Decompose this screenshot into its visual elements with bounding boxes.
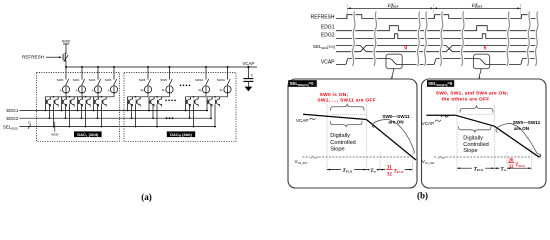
DACL label <box>74 131 102 137</box>
svg-text:5: 5 <box>484 46 487 52</box>
transistor Q1 (REFRESH pass device) <box>63 51 68 67</box>
svg-text:VCAP: VCAP <box>242 61 254 66</box>
svg-text:Tss: Tss <box>500 166 506 172</box>
timing: time-break squiggles <box>352 12 537 67</box>
left panel T_FCO dimension <box>327 166 366 174</box>
wire: output bus to VCAP <box>66 66 257 68</box>
svg-text:VCAP: VCAP <box>296 118 309 123</box>
svg-text:are ON: are ON <box>388 120 404 125</box>
left panel underbrace + Digitally Controlled Slope text <box>330 121 362 127</box>
svg-text:Slope: Slope <box>330 147 344 153</box>
svg-text:SW1: SW1 <box>73 78 80 82</box>
left panel T_ss dimension <box>366 166 380 174</box>
svg-text:DACL (2bit): DACL (2bit) <box>77 132 99 138</box>
svg-text:(b): (b) <box>417 190 428 200</box>
svg-text:32: 32 <box>509 165 515 170</box>
svg-text:SW4: SW4 <box>139 78 146 82</box>
DAC block DACM dashed boundary <box>124 72 236 141</box>
svg-text:TFCO: TFCO <box>515 162 525 168</box>
svg-text:Tss: Tss <box>370 168 376 174</box>
svg-text:AVDD: AVDD <box>62 40 71 44</box>
svg-text:C: C <box>251 73 254 77</box>
node EDG2 (net line) <box>6 116 212 121</box>
svg-text:TFCO: TFCO <box>474 166 484 172</box>
timing trace EDG2 <box>321 33 536 39</box>
svg-text:EDG1: EDG1 <box>321 25 335 31</box>
capacitor C <box>243 67 253 87</box>
svg-text:(a): (a) <box>141 192 152 202</box>
svg-text:AVDD: AVDD <box>51 132 59 136</box>
node EDG1 (net line) <box>6 108 208 113</box>
right panel T_FCO dimension <box>457 164 494 172</box>
DACM label <box>167 131 195 137</box>
svg-text:SW10: SW10 <box>195 78 204 82</box>
node AVDD (bias stub inside DACL) <box>51 122 59 137</box>
right panel overbrace <box>460 105 493 112</box>
right panel reference verticals and dotted level <box>457 105 531 171</box>
left panel VCAP waveform: steep discharge (all switches on) <box>366 120 416 161</box>
left panel V_TH_INV threshold dashed line <box>295 156 414 165</box>
DAC cell SW5: switch SW5, current source 4I0, edge-select transistors <box>149 66 173 127</box>
timing trace EDG1 <box>321 25 536 31</box>
svg-text:SW0, SW1, and SW4 are ON;: SW0, SW1, and SW4 are ON; <box>436 91 509 97</box>
node SEL_EDG bus (net line, 12-bit) <box>3 121 216 131</box>
svg-text:Controlled: Controlled <box>330 140 356 146</box>
svg-text:SW1, ..., SW11 are OFF: SW1, ..., SW11 are OFF <box>317 98 376 104</box>
svg-text:the others are OFF: the others are OFF <box>442 96 490 102</box>
svg-text:Slope: Slope <box>463 148 477 154</box>
AVDD supply <box>62 40 71 51</box>
callout box on second VCAP falling edge <box>473 54 489 68</box>
timing trace VCAP <box>321 59 536 66</box>
svg-text:TFCO: TFCO <box>394 168 404 174</box>
svg-text:EDG2: EDG2 <box>321 33 335 39</box>
left panel VCAP label <box>296 118 316 123</box>
svg-text:32: 32 <box>387 173 393 178</box>
timing trace SEL_EDG[9:0] bus <box>313 44 536 52</box>
svg-text:REFRESH: REFRESH <box>22 55 44 60</box>
DAC cell SW3: switch SW3, current source I0, edge-select transistors <box>94 66 118 127</box>
callout box on first VCAP falling edge <box>386 54 402 68</box>
left panel rotated brace along steep slope <box>372 119 414 153</box>
right panel rotated brace along steep slope <box>496 123 540 154</box>
svg-text:Controlled: Controlled <box>463 142 489 148</box>
left panel note: SW0 is ON; SW1..SW11 are OFF <box>317 92 376 104</box>
svg-text:SW5: SW5 <box>160 78 167 82</box>
svg-text:12: 12 <box>28 121 32 125</box>
svg-text:EDG1: EDG1 <box>6 108 19 113</box>
left panel note: SW0-SW11 are ON <box>382 114 410 125</box>
svg-text:SW3: SW3 <box>105 78 112 82</box>
svg-text:SW0 is ON;: SW0 is ON; <box>320 92 349 98</box>
DAC cell SW2: switch SW2, current source I0, edge-select transistors <box>78 66 102 127</box>
DAC cell SW1: switch SW1, current source I0, edge-select transistors <box>62 66 86 127</box>
leader from second callout to right panel <box>479 69 482 80</box>
continuation dots inside DACM <box>165 85 190 120</box>
left panel VCAP waveform: digitally controlled slope <box>303 114 366 119</box>
ground (below capacitor C) <box>245 87 253 92</box>
svg-text:0: 0 <box>404 45 407 51</box>
right panel VCAP label <box>422 120 441 126</box>
right panel V_TH_INV threshold dashed line <box>422 156 532 165</box>
svg-text:Digitally: Digitally <box>330 133 350 139</box>
right panel VCAP waveform: steep discharge <box>494 126 540 157</box>
right panel note: SW0, SW1, and SW4 are ON; the others are OFF <box>436 91 509 103</box>
DAC cell SW10: switch SW10, current source 4I0, edge-select transistors <box>186 66 210 127</box>
svg-text:VCAP: VCAP <box>321 59 335 65</box>
svg-text:SW2: SW2 <box>89 78 96 82</box>
timing: 1/fREF period dimension arrows <box>347 4 520 20</box>
DAC block DACL dashed boundary <box>37 72 120 141</box>
left panel reference verticals and dotted level <box>327 104 412 172</box>
svg-text:Digitally: Digitally <box>463 136 483 142</box>
left panel frame (SEL=0 case) <box>288 79 417 188</box>
svg-text:DACM (3bit): DACM (3bit) <box>170 132 192 138</box>
svg-text:VCAP: VCAP <box>422 121 435 126</box>
DAC cell SW0: switch SW0, current source I0, edge-select transistors <box>46 66 70 127</box>
right panel underbrace + Digitally Controlled Slope text <box>459 126 492 132</box>
DAC cell SW11: switch SW11, current source 4I0, edge-select transistors <box>207 66 231 127</box>
left panel header SEL_EDG[9:0]=0 <box>288 80 317 87</box>
left panel 31/32 T_FCO dimension (red) <box>380 163 412 178</box>
right panel VCAP waveform: initial flat level <box>426 115 455 117</box>
right panel frame (SEL=5 case) <box>422 79 547 188</box>
svg-text:are ON: are ON <box>514 126 530 131</box>
timing trace REFRESH <box>311 14 536 20</box>
svg-text:TFCO: TFCO <box>343 168 353 174</box>
svg-text:EDG2: EDG2 <box>6 116 19 121</box>
node VCAP <box>242 61 254 68</box>
right panel T_ss dimension <box>494 165 507 173</box>
node REFRESH (label + gate arrow) <box>22 55 62 60</box>
svg-text:REFRESH: REFRESH <box>311 14 335 20</box>
svg-text:SW0—SW11: SW0—SW11 <box>513 120 541 125</box>
svg-text:SW0—SW11: SW0—SW11 <box>382 114 410 119</box>
right panel VCAP waveform: digitally controlled slope <box>456 115 495 126</box>
leader from first callout to left panel <box>391 69 394 80</box>
svg-text:SW0: SW0 <box>57 78 64 82</box>
right panel 26/32 T_FCO dimension (red, label above) <box>507 158 531 170</box>
svg-text:SW11: SW11 <box>217 78 225 82</box>
right panel header SEL_EDG[9:0]=5 <box>427 80 454 87</box>
DAC cell SW4: switch SW4, current source 4I0, edge-select transistors <box>128 66 152 127</box>
left panel overbrace (digitally controlled region) <box>331 104 365 111</box>
right panel note: SW0-SW11 are ON <box>513 120 541 131</box>
